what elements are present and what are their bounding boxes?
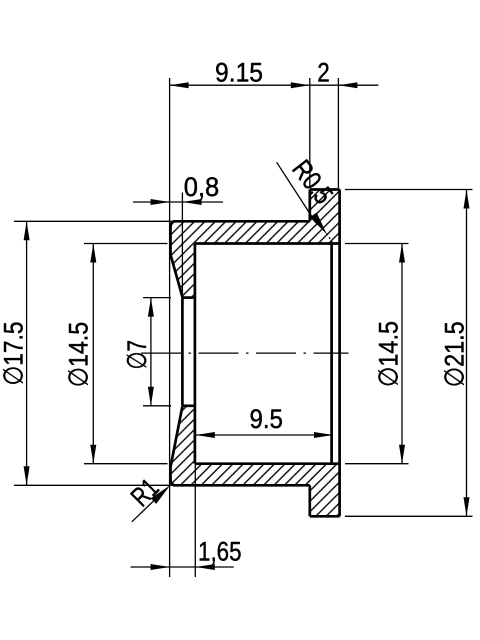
arrow 9.15 right	[291, 82, 310, 88]
flange top face	[310, 188, 340, 191]
arrow 1.65 right (outside)	[196, 564, 215, 570]
bore bottom surface	[195, 462, 340, 465]
lower wall + flange section (hatched)	[171, 406, 340, 517]
arrow dia7 top	[148, 298, 154, 317]
arrow dia21.5 bottom	[464, 497, 470, 516]
arrow dia14.5-left top	[90, 244, 96, 263]
svg-text:1,65: 1,65	[198, 537, 242, 567]
svg-text:∅14.5: ∅14.5	[64, 322, 94, 388]
body outer top surface	[173, 220, 310, 223]
flare profile upper-left	[171, 221, 183, 297]
arrow dia14.5-left bottom	[90, 445, 96, 464]
extension line dia17.5 bottom	[14, 484, 173, 486]
flange right face	[338, 190, 341, 517]
arrow dia21.5 top	[464, 190, 470, 209]
extension line dia7 top	[143, 297, 171, 299]
arrow 1.65 left (outside)	[151, 564, 170, 570]
extension line 9.15 right / 2 left (x=309.8)	[309, 78, 311, 188]
svg-text:2: 2	[317, 58, 330, 88]
leader R1	[132, 495, 160, 522]
bore end edge	[330, 244, 333, 464]
body outer bottom surface	[173, 484, 310, 487]
extension line dia17.5 top	[14, 220, 173, 222]
arrow dia14.5-right top	[399, 244, 405, 263]
dimension line dia7	[150, 298, 152, 406]
extension line dia14.5-left bottom	[84, 463, 168, 465]
svg-text:9.5: 9.5	[249, 404, 283, 434]
arrow 9.5 left	[196, 432, 215, 438]
extension line dia7 bottom	[143, 405, 171, 407]
flange left face lower	[308, 485, 311, 516]
flare profile lower-left	[171, 406, 183, 485]
extension line dia14.5-right bottom	[345, 463, 409, 465]
arrow dia14.5-right bottom	[399, 445, 405, 464]
dimension line dia14.5-left	[92, 244, 94, 464]
extension line dia14.5-left top	[84, 243, 168, 245]
flange bottom face	[310, 515, 340, 518]
arrow 2 right (outside)	[338, 82, 357, 88]
small hole silhouette bottom	[182, 404, 195, 407]
svg-text:∅14.5: ∅14.5	[374, 321, 404, 387]
small hole wall edge	[181, 298, 184, 406]
bore top surface	[195, 242, 340, 245]
extension line 1.65 right (x=195.3)	[194, 464, 196, 577]
svg-text:∅7: ∅7	[122, 340, 152, 370]
arrow 0.8 left (outside)	[151, 199, 170, 205]
extension line dia21.5 bottom	[345, 515, 473, 517]
dimension line dia17.5	[26, 221, 28, 485]
svg-text:0,8: 0,8	[184, 172, 220, 202]
extension line left long (x=169.6)	[169, 78, 171, 577]
small hole silhouette top	[182, 296, 195, 299]
flange left face upper	[308, 190, 311, 222]
arrow dia17.5 bottom	[24, 466, 30, 485]
extension line 2 right (x=338.4)	[337, 78, 339, 188]
svg-text:∅17.5: ∅17.5	[0, 322, 29, 386]
arrow 9.5 right	[314, 432, 333, 438]
extension line dia14.5-right top	[345, 243, 409, 245]
upper wall + flange section (hatched)	[171, 190, 340, 298]
dimension line 1.65	[131, 566, 234, 568]
svg-text:9.15: 9.15	[215, 57, 263, 87]
svg-text:∅21.5: ∅21.5	[440, 321, 470, 387]
centerline (axis)	[141, 352, 349, 354]
dimension line dia14.5-right	[401, 244, 403, 464]
left wall inner face	[194, 244, 197, 464]
dimension line 9.5	[196, 434, 333, 436]
arrow dia17.5 top	[24, 221, 30, 240]
extension line 0.8 right (x=182.4)	[181, 193, 183, 298]
arrow 0.8 right (outside)	[183, 199, 202, 205]
dimension line dia21.5	[466, 190, 468, 517]
arrow dia7 bottom	[148, 387, 154, 406]
leader R0.5	[277, 162, 316, 223]
dimension line 0.8	[133, 201, 223, 203]
extension line dia21.5 top	[345, 189, 473, 191]
dimension line 9.15 / 2 (top)	[170, 84, 379, 86]
arrow 9.15 left	[170, 82, 189, 88]
